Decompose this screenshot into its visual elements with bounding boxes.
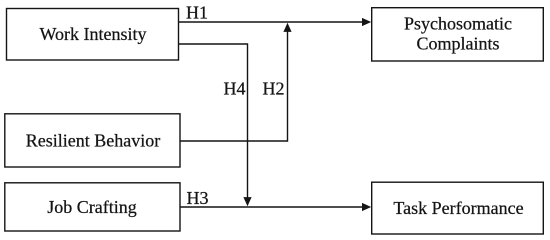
box Task Performance: [372, 182, 544, 234]
box Work Intensity: [7, 9, 179, 61]
svg-text:Resilient Behavior: Resilient Behavior: [26, 131, 160, 151]
svg-text:Work Intensity: Work Intensity: [39, 24, 146, 44]
svg-text:H2: H2: [263, 79, 285, 99]
arrow H3: Job Crafting to Task Performance: [180, 203, 371, 211]
box Job Crafting: [5, 183, 180, 231]
svg-text:Psychosomatic: Psychosomatic: [404, 14, 512, 34]
svg-text:Job Crafting: Job Crafting: [47, 197, 137, 217]
box Resilient Behavior: [5, 114, 180, 167]
svg-text:H1: H1: [186, 3, 208, 23]
box Psychosomatic Complaints: [372, 8, 544, 61]
svg-text:H3: H3: [187, 188, 209, 208]
svg-text:Task Performance: Task Performance: [393, 198, 523, 218]
arrow H4: Work Intensity down to H3 line (moderation): [179, 44, 252, 206]
svg-text:H4: H4: [224, 79, 246, 99]
svg-text:Complaints: Complaints: [416, 34, 499, 54]
arrow H1: Work Intensity to Psychosomatic Complaints: [179, 18, 372, 26]
arrow H2: Resilient Behavior up to H1 line (moderation): [180, 23, 292, 141]
